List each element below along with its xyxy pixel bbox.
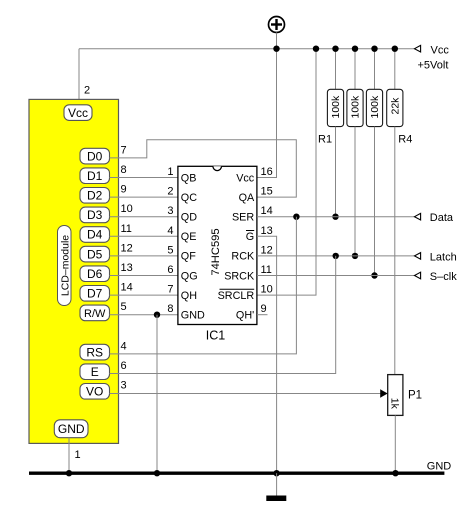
svg-text:QE: QE bbox=[181, 231, 197, 243]
svg-text:QD: QD bbox=[181, 212, 197, 224]
LCD pin D3 bbox=[80, 207, 110, 223]
LCD pin RS bbox=[80, 344, 110, 360]
svg-text:1: 1 bbox=[167, 166, 173, 178]
svg-text:SRCLR: SRCLR bbox=[218, 290, 255, 302]
IC pin label G with overline bbox=[246, 231, 254, 244]
svg-text:+5Volt: +5Volt bbox=[418, 60, 449, 72]
svg-text:D6: D6 bbox=[87, 267, 103, 281]
wire D0 to QA route bbox=[110, 140, 297, 197]
svg-text:15: 15 bbox=[261, 186, 273, 198]
node P1 on ground bus bbox=[392, 470, 398, 476]
svg-text:11: 11 bbox=[261, 264, 272, 276]
svg-text:100k: 100k bbox=[369, 95, 381, 119]
svg-text:GND: GND bbox=[58, 422, 85, 436]
svg-text:10: 10 bbox=[121, 203, 133, 215]
connector arrow Data bbox=[415, 212, 454, 224]
node R/W GND junction bbox=[154, 312, 160, 318]
svg-text:12: 12 bbox=[121, 242, 133, 254]
svg-text:11: 11 bbox=[121, 223, 132, 235]
svg-text:9: 9 bbox=[121, 184, 127, 196]
svg-text:D0: D0 bbox=[87, 149, 103, 163]
node SRCLR bus bbox=[313, 46, 319, 52]
LCD module body bbox=[29, 99, 119, 443]
wire SER to Data bbox=[257, 216, 415, 218]
LCD pin D5 bbox=[80, 246, 110, 262]
svg-text:SER: SER bbox=[232, 212, 254, 224]
svg-text:QA: QA bbox=[239, 192, 255, 204]
svg-text:7: 7 bbox=[121, 144, 127, 156]
resistor R3 100k bbox=[366, 46, 382, 279]
IC pin label SRCLR with overline bbox=[218, 289, 255, 302]
wire VO to P1 wiper bbox=[110, 393, 382, 395]
wire +5V top bus bbox=[79, 48, 415, 50]
node Latch to E riser bbox=[333, 253, 339, 259]
svg-text:Vcc: Vcc bbox=[68, 106, 88, 120]
svg-text:5: 5 bbox=[121, 301, 127, 313]
svg-text:QF: QF bbox=[181, 251, 196, 263]
resistor R1 100k bbox=[327, 46, 343, 220]
connector arrow Vcc +5Volt bbox=[415, 45, 450, 72]
svg-text:E: E bbox=[91, 365, 99, 379]
svg-text:QB: QB bbox=[181, 172, 197, 184]
node G wire on ground bus bbox=[273, 470, 279, 476]
svg-text:6: 6 bbox=[167, 264, 173, 276]
svg-text:QC: QC bbox=[181, 192, 197, 204]
svg-text:13: 13 bbox=[121, 262, 133, 274]
LCD pin GND bbox=[54, 420, 88, 438]
wire bus to ground symbol bbox=[276, 473, 278, 495]
LCD pin R/W bbox=[80, 305, 110, 321]
svg-text:IC1: IC1 bbox=[206, 329, 226, 343]
svg-text:74HC595: 74HC595 bbox=[210, 228, 222, 275]
wire D4 to QE bbox=[110, 235, 178, 237]
svg-text:D7: D7 bbox=[87, 287, 103, 301]
svg-text:4: 4 bbox=[167, 225, 173, 237]
svg-text:3: 3 bbox=[121, 380, 127, 392]
LCD pin Vcc bbox=[64, 105, 92, 121]
wire G pin13 down to ground bus bbox=[257, 236, 277, 473]
wire D1 to QB bbox=[110, 177, 178, 179]
wire Latch down to E bbox=[110, 256, 336, 374]
LCD pin D7 bbox=[80, 286, 110, 302]
svg-text:1: 1 bbox=[75, 449, 81, 461]
LCD pin VO bbox=[80, 384, 110, 400]
svg-text:6: 6 bbox=[121, 360, 127, 372]
LCD-module label bbox=[58, 226, 72, 306]
node LCD GND on bus bbox=[66, 470, 72, 476]
wire P1 bottom to ground bus bbox=[394, 415, 396, 473]
wire Data down to RS bbox=[110, 217, 297, 354]
svg-text:RS: RS bbox=[86, 345, 103, 359]
svg-text:100k: 100k bbox=[350, 95, 362, 119]
svg-text:13: 13 bbox=[261, 225, 273, 237]
wire Vcc riser from LCD pin 2 to +5V bus bbox=[78, 49, 80, 100]
svg-text:QH': QH' bbox=[236, 310, 254, 322]
battery + symbol bbox=[269, 17, 285, 33]
svg-text:GND: GND bbox=[181, 310, 205, 322]
wire QH' stub bbox=[257, 314, 268, 316]
wire D7 to QH bbox=[110, 294, 178, 296]
svg-text:Vcc: Vcc bbox=[236, 172, 255, 184]
svg-text:P1: P1 bbox=[408, 390, 422, 402]
resistor R4 22k bbox=[387, 46, 403, 375]
resistor R2 100k bbox=[347, 46, 363, 260]
wire R/W and IC GND to ground bus bbox=[110, 314, 178, 316]
LCD pin D1 bbox=[80, 168, 110, 184]
svg-text:7: 7 bbox=[167, 284, 173, 296]
svg-text:D5: D5 bbox=[87, 247, 103, 261]
wire IC Vcc pin16 riser bbox=[257, 49, 277, 178]
wire D6 to QG bbox=[110, 275, 178, 277]
svg-text:22k: 22k bbox=[390, 97, 402, 115]
svg-text:D1: D1 bbox=[87, 169, 103, 183]
svg-text:D3: D3 bbox=[87, 208, 103, 222]
wire LCD GND to ground bus bbox=[68, 438, 70, 474]
svg-text:G: G bbox=[246, 231, 254, 243]
LCD pin E bbox=[80, 364, 110, 380]
svg-text:Latch: Latch bbox=[430, 251, 457, 263]
LCD pin D0 bbox=[80, 148, 110, 164]
svg-text:SRCK: SRCK bbox=[224, 270, 255, 282]
svg-text:5: 5 bbox=[167, 244, 173, 256]
svg-text:1k: 1k bbox=[389, 398, 401, 410]
svg-text:D2: D2 bbox=[87, 189, 103, 203]
svg-text:2: 2 bbox=[167, 186, 173, 198]
wire from + symbol down to bus bbox=[276, 33, 278, 49]
svg-text:QH: QH bbox=[181, 290, 197, 302]
svg-text:Vcc: Vcc bbox=[431, 45, 450, 57]
wire D3 to QD bbox=[110, 216, 178, 218]
svg-text:16: 16 bbox=[261, 166, 273, 178]
wire junction down to ground bus bbox=[156, 315, 158, 474]
node junction + bus bbox=[273, 46, 279, 52]
op IC1 74HC595 body bbox=[178, 166, 257, 324]
node Data to RS riser bbox=[293, 214, 299, 220]
ground symbol bbox=[266, 496, 286, 502]
ground bus bbox=[29, 472, 444, 475]
svg-text:D4: D4 bbox=[87, 228, 103, 242]
svg-text:S–clk: S–clk bbox=[430, 271, 457, 283]
svg-text:R4: R4 bbox=[398, 134, 412, 146]
svg-text:8: 8 bbox=[167, 303, 173, 315]
svg-text:R/W: R/W bbox=[84, 308, 106, 320]
svg-text:R1: R1 bbox=[318, 134, 332, 146]
wire SRCLR pin10 riser to bus bbox=[257, 49, 316, 295]
wire RCK to Latch bbox=[257, 255, 415, 257]
svg-text:8: 8 bbox=[121, 164, 127, 176]
LCD pin D6 bbox=[80, 266, 110, 282]
svg-text:QG: QG bbox=[181, 270, 198, 282]
wire D2 to QC bbox=[110, 196, 178, 198]
potentiometer P1 1k bbox=[380, 375, 403, 416]
svg-text:14: 14 bbox=[261, 205, 273, 217]
svg-text:LCD–module: LCD–module bbox=[59, 235, 71, 296]
svg-text:3: 3 bbox=[167, 205, 173, 217]
svg-text:2: 2 bbox=[84, 85, 90, 97]
connector arrow Latch bbox=[415, 251, 457, 263]
svg-text:4: 4 bbox=[121, 340, 127, 352]
svg-text:GND: GND bbox=[427, 461, 452, 473]
LCD pin D2 bbox=[80, 188, 110, 204]
connector arrow S-clk bbox=[415, 271, 458, 283]
wire D5 to QF bbox=[110, 255, 178, 257]
svg-text:Data: Data bbox=[430, 212, 454, 224]
wire SRCK to S-clk bbox=[257, 275, 415, 277]
svg-text:RCK: RCK bbox=[231, 251, 255, 263]
svg-text:12: 12 bbox=[261, 244, 273, 256]
LCD pin D4 bbox=[80, 227, 110, 243]
svg-text:100k: 100k bbox=[330, 95, 342, 119]
svg-text:9: 9 bbox=[261, 303, 267, 315]
svg-text:14: 14 bbox=[121, 282, 133, 294]
svg-text:VO: VO bbox=[86, 385, 103, 399]
svg-text:10: 10 bbox=[261, 284, 273, 296]
node on ground bus bbox=[154, 470, 160, 476]
